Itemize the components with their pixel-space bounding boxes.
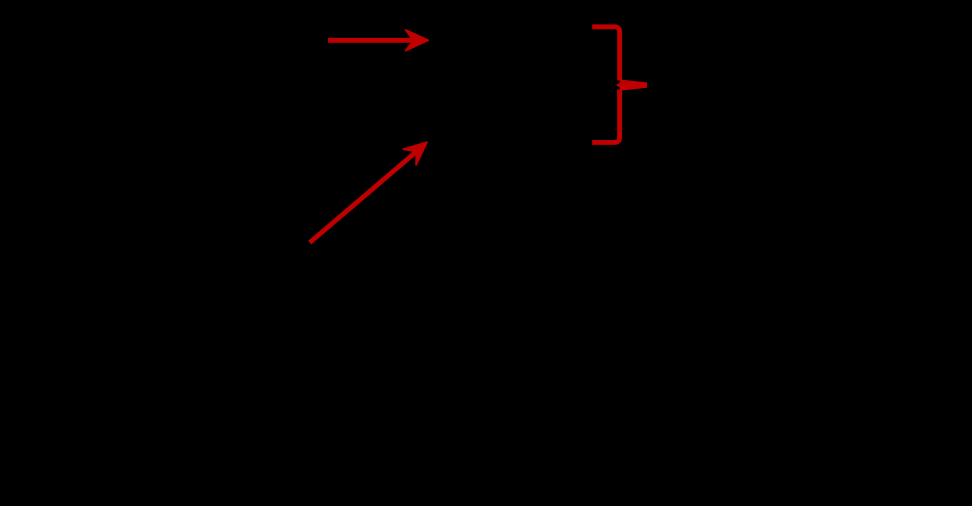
arrow A2 shaft (diagonal red arrow) (310, 149, 420, 243)
brace B1 middle point / leader tick (616, 80, 647, 91)
brace B1 upper half (right curly brace) (592, 27, 619, 81)
arrow A1 head (stealth) (406, 30, 429, 51)
arrow A2 head (stealth) (403, 142, 427, 165)
arrow A1 shaft (horizontal red arrow) (328, 38, 417, 43)
brace B1 lower half (592, 90, 619, 143)
